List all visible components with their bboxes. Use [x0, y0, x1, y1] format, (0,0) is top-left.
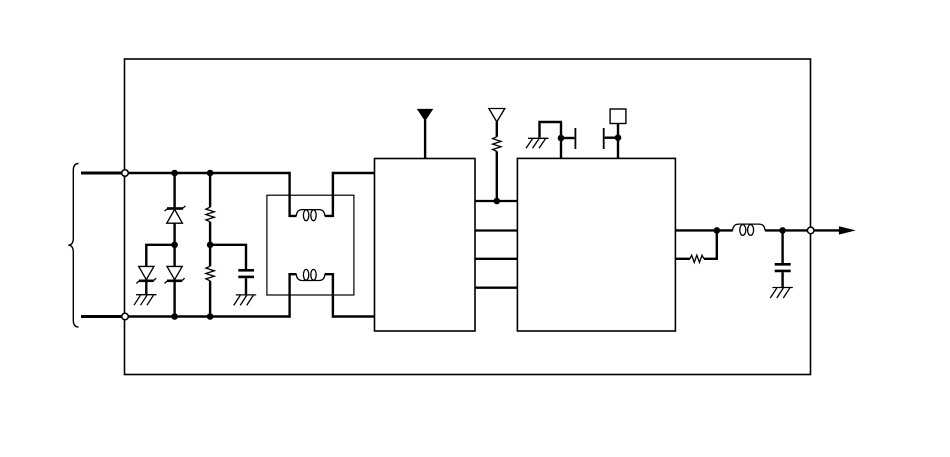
zener diode D2 [136, 266, 156, 283]
wire mid branch left [146, 245, 174, 266]
node C3 [558, 135, 565, 142]
node mid column1 [171, 242, 178, 249]
wire output lower [675, 258, 690, 260]
node C4 [615, 134, 622, 141]
antenna symbol (open) [489, 109, 505, 122]
wire interstage 1 [475, 200, 517, 202]
wire antenna stem [424, 120, 426, 159]
capacitor C2 [775, 264, 791, 271]
antenna symbol (filled) [417, 109, 434, 121]
wire feedthrough C3 stem [560, 122, 562, 158]
wire input lead top [81, 172, 123, 175]
wire C4 plate lead [605, 136, 618, 138]
ground G4 [770, 288, 793, 299]
terminal input bottom [122, 313, 129, 320]
wire top rail [128, 172, 289, 174]
node top rail / zener column [171, 170, 178, 177]
wire interstage 4 [475, 287, 517, 289]
wire D3 to bottom rail [173, 281, 175, 317]
terminal input top [122, 170, 129, 177]
module outline (border frame of hybrid module) [125, 59, 811, 375]
block U2 filter [517, 158, 675, 331]
node bottom rail / zener column [171, 313, 178, 320]
terminal pad (open square) [610, 109, 626, 124]
node mid column2 [207, 242, 214, 249]
wire R2 to bottom rail [209, 281, 211, 317]
capacitor C1 [238, 270, 254, 277]
input brace [68, 164, 78, 328]
wire secondary right stub [325, 274, 333, 318]
wire primary right stub [325, 172, 333, 216]
transformer secondary winding [296, 269, 325, 280]
wire C2 stem [781, 230, 783, 263]
wire primary left stub [290, 172, 297, 216]
ground G3 [526, 138, 549, 148]
wire secondary left stub [290, 274, 297, 318]
node top rail / resistor column [207, 170, 214, 177]
wire column2 to mid node [209, 222, 211, 245]
output arrowhead [839, 226, 856, 234]
resistor R1 [206, 207, 214, 222]
terminal output [807, 227, 814, 234]
node antenna tap [494, 198, 501, 205]
wire C3 plate lead [561, 137, 574, 139]
resistor R3 [493, 137, 501, 152]
zener diode D1 [165, 206, 186, 223]
wire column1 to mid node [173, 223, 175, 245]
wire C2 to ground [781, 272, 783, 287]
wire interstage 3 [475, 258, 517, 260]
wire input lead bottom [81, 315, 123, 318]
node bottom rail / resistor column [207, 313, 214, 320]
wire bottom rail to amplifier [333, 315, 375, 317]
transformer primary winding [296, 210, 325, 221]
inductor L1 [733, 224, 765, 235]
wire C3 ground loop [540, 122, 563, 138]
wire top rail to amplifier [333, 172, 375, 174]
wire output arrow lead [814, 229, 845, 231]
wire column1 upper [173, 173, 175, 207]
wire column2 upper [209, 173, 211, 207]
wire interstage 2 [475, 229, 517, 231]
capacitor C4 plate [603, 128, 605, 149]
wire feedback down [716, 230, 718, 258]
transformer box [267, 195, 354, 295]
wire trimmer C4 stem [617, 124, 619, 159]
wire D2 to ground [145, 281, 147, 295]
node output L1 left [714, 227, 721, 234]
wire open-antenna stem lower [496, 151, 498, 201]
node output C2 top [779, 227, 786, 234]
wire open-antenna stem upper [496, 122, 498, 137]
wire C1 to ground [245, 278, 247, 294]
wire R4 to node [704, 258, 718, 260]
wire output upper [675, 229, 732, 231]
wire L1 to output terminal [765, 229, 811, 231]
wire bottom rail [128, 315, 289, 317]
resistor R2 [206, 266, 214, 281]
capacitor C3 plate [574, 128, 576, 149]
block U1 amplifier [375, 159, 476, 332]
resistor R4 [690, 255, 704, 262]
wire column2 lower [209, 245, 211, 266]
ground G2 [234, 295, 257, 306]
wire mid branch right to capacitor [210, 245, 246, 269]
wire column1 lower [173, 245, 175, 266]
ground G1 [134, 295, 157, 306]
zener diode D3 [165, 266, 185, 283]
